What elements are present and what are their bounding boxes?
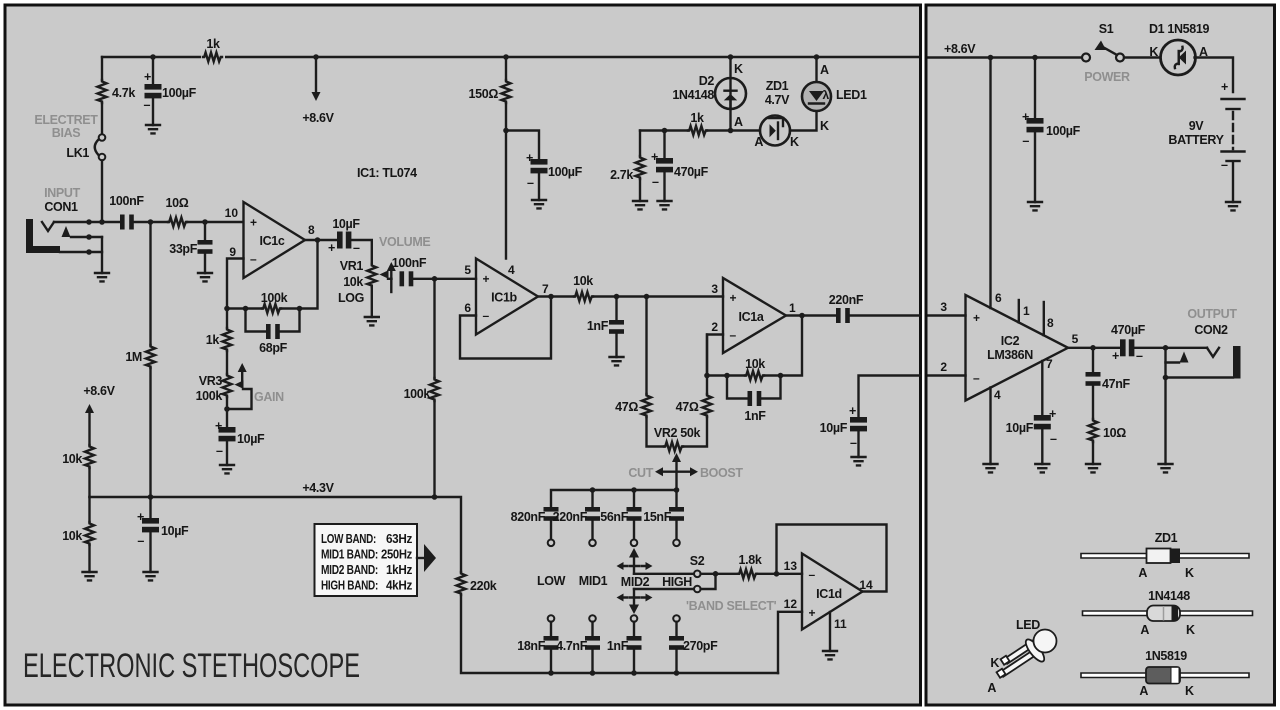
svg-text:2.7k: 2.7k <box>610 168 633 182</box>
wire: IC1d pin11 ground stub <box>829 612 831 651</box>
wire: IC1c pin9 feedback to node <box>227 259 244 309</box>
node: junction 100uF decouple <box>503 128 509 134</box>
svg-text:K: K <box>1186 623 1195 637</box>
svg-text:HIGH: HIGH <box>662 575 692 589</box>
svg-text:MID2 BAND:: MID2 BAND: <box>321 563 378 577</box>
svg-text:IC1c: IC1c <box>259 234 284 248</box>
svg-text:3: 3 <box>940 300 947 314</box>
svg-text:47nF: 47nF <box>1102 377 1130 391</box>
wire: IC1a pin2 to feedback <box>707 335 723 376</box>
op-amp IC1c <box>244 202 306 278</box>
svg-text:LOG: LOG <box>338 291 364 305</box>
resistor R 47R (right, tone) <box>706 335 708 395</box>
svg-text:100k: 100k <box>261 291 288 305</box>
svg-text:18nF: 18nF <box>517 639 545 653</box>
svg-text:10µF: 10µF <box>332 217 360 231</box>
svg-text:15nF: 15nF <box>643 510 671 524</box>
selector dashed arrows (upper) <box>624 565 645 567</box>
svg-text:2: 2 <box>711 320 718 334</box>
svg-text:1N5819: 1N5819 <box>1145 649 1187 663</box>
ground (CON1 sleeve) <box>95 273 109 281</box>
capacitor C 10uF (IC2 pin2) <box>850 417 867 431</box>
capacitor C 1nF (IC1a feedback) <box>727 376 781 399</box>
svg-text:HIGH BAND:: HIGH BAND: <box>321 579 378 593</box>
link LK1 ELECTRET BIAS <box>101 103 103 134</box>
node: rail junction at 150R <box>503 54 509 60</box>
svg-text:K: K <box>790 135 799 149</box>
switch S2 contact lower <box>634 588 694 590</box>
svg-text:1.8k: 1.8k <box>739 553 762 567</box>
svg-text:10Ω: 10Ω <box>1103 426 1126 440</box>
node: rail junction at 100uF <box>150 54 156 60</box>
svg-text:–: – <box>973 371 980 385</box>
svg-text:+: + <box>215 419 222 433</box>
terminal (15nF) <box>673 540 680 547</box>
svg-text:LK1: LK1 <box>66 146 89 160</box>
capacitor C 18nF (LOW bottom) <box>550 622 552 636</box>
pin 1 stub <box>1018 300 1020 322</box>
capacitor C 4.7nF (MID1 bottom) <box>591 622 593 636</box>
capacitor C 47nF (zobel) <box>1092 348 1094 372</box>
svg-text:–: – <box>483 309 490 323</box>
ground (VR1) <box>365 317 379 325</box>
svg-text:+: + <box>250 216 257 230</box>
ground (IC2 pin4) <box>984 464 998 472</box>
svg-text:IC1d: IC1d <box>816 587 842 601</box>
svg-text:9V: 9V <box>1189 119 1205 133</box>
zener diode ZD1 4.7V <box>760 116 790 146</box>
capacitor C 15nF (HIGH top) <box>675 490 677 507</box>
svg-text:CON2: CON2 <box>1194 323 1228 337</box>
feedback resistor R 10k (IC1a) <box>707 374 745 376</box>
capacitor C 33pF <box>204 222 206 273</box>
node: junction 1M branch <box>148 219 154 225</box>
svg-text:250Hz: 250Hz <box>381 548 412 562</box>
resistor R 10R (zobel) <box>1089 419 1098 442</box>
svg-text:1N4148: 1N4148 <box>1148 589 1190 603</box>
svg-text:10Ω: 10Ω <box>166 196 189 210</box>
svg-text:+: + <box>144 70 151 84</box>
svg-text:10µF: 10µF <box>820 421 848 435</box>
switch S2 contact upper <box>634 573 694 575</box>
wire: 220nF to IC2 pin3 (crosses panel gap) <box>850 314 920 316</box>
svg-text:470µF: 470µF <box>674 165 709 179</box>
potentiometer VR3 100k GAIN <box>226 351 228 374</box>
svg-text:1nF: 1nF <box>607 639 629 653</box>
svg-text:+: + <box>651 150 658 164</box>
svg-text:VOLUME: VOLUME <box>379 235 430 249</box>
resistor R 10k (divider top) <box>85 445 94 468</box>
svg-text:13: 13 <box>784 559 798 573</box>
terminal (220nF) <box>589 540 596 547</box>
capacitor C 220nF (output coupling) <box>836 308 850 323</box>
svg-text:CUT: CUT <box>628 466 653 480</box>
svg-text:8: 8 <box>308 223 315 237</box>
svg-text:MID1 BAND:: MID1 BAND: <box>321 548 378 562</box>
svg-text:GAIN: GAIN <box>254 390 284 404</box>
svg-text:63Hz: 63Hz <box>386 532 412 546</box>
resistor R 1k (LED current) <box>688 126 707 135</box>
svg-text:IC1: TL074: IC1: TL074 <box>357 166 417 180</box>
svg-text:470µF: 470µF <box>1111 323 1146 337</box>
capacitor C 470uF (output coupling) <box>1120 339 1134 356</box>
resistor R 10R (input) <box>168 218 187 227</box>
node: rail junction at D2 <box>728 54 734 60</box>
svg-text:LM386N: LM386N <box>987 348 1033 362</box>
svg-text:220nF: 220nF <box>553 510 588 524</box>
ground (100uF decouple) <box>532 200 546 208</box>
ground (10uF IC2 pin2) <box>852 457 866 465</box>
terminal (18nF) <box>548 615 555 622</box>
capacitor C 100nF (input coupling) <box>120 215 134 230</box>
capacitor C 68pF (parallel feedback) <box>246 309 300 332</box>
svg-text:ZD1: ZD1 <box>1155 531 1178 545</box>
node: rail junction at LED1 <box>814 54 820 60</box>
svg-text:4kHz: 4kHz <box>386 579 412 593</box>
capacitor C 10uF (gain set) <box>219 427 236 441</box>
pin 7 stub to 10uF <box>1041 361 1043 415</box>
ground (10uF half-rail) <box>144 572 158 580</box>
terminal (4.7nF) <box>589 615 596 622</box>
right schematic panel <box>926 5 1275 705</box>
op-amp IC1d <box>802 554 863 630</box>
svg-text:+8.6V: +8.6V <box>302 111 334 125</box>
ground (battery) <box>1226 202 1240 210</box>
svg-text:220k: 220k <box>470 579 497 593</box>
diode D1 1N5819 schottky <box>1161 40 1196 75</box>
left schematic panel <box>5 5 921 705</box>
svg-text:LED: LED <box>1016 618 1040 632</box>
svg-text:6: 6 <box>995 291 1002 305</box>
ground (2.7k) <box>633 201 647 209</box>
svg-text:100µF: 100µF <box>162 86 197 100</box>
svg-text:1k: 1k <box>206 37 220 51</box>
capacitor C 56nF (MID2 top) <box>633 490 635 507</box>
pin 8 stub <box>1043 302 1045 335</box>
svg-text:68pF: 68pF <box>259 341 287 355</box>
svg-text:100µF: 100µF <box>548 165 583 179</box>
svg-text:–: – <box>353 241 360 255</box>
wire: IC2 pin2 input <box>929 374 966 376</box>
svg-text:IC2: IC2 <box>1001 334 1020 348</box>
selector dashed arrows (lower) <box>624 596 645 598</box>
band table box <box>315 524 418 596</box>
svg-text:K: K <box>990 656 999 670</box>
capacitor C 10uF (IC2 bypass) <box>1034 415 1051 429</box>
wire: 100nF to IC1b pin5 <box>413 278 476 280</box>
ground (470uF) <box>658 201 672 209</box>
svg-text:K: K <box>1185 566 1194 580</box>
svg-text:MID2: MID2 <box>621 575 650 589</box>
wire: IC2 output pin5 <box>1068 347 1120 349</box>
op-amp IC2 LM386N <box>966 295 1069 401</box>
ground (100uF battery) <box>1028 202 1042 210</box>
capacitor C 10uF (half-rail decouple) <box>149 497 151 518</box>
diode D2 1N4148 <box>729 57 731 109</box>
svg-text:7: 7 <box>542 282 549 296</box>
wire: +4.3V rail <box>90 497 462 572</box>
svg-text:INPUT: INPUT <box>44 186 80 200</box>
capacitor C 100uF (battery decouple) <box>1034 58 1036 119</box>
svg-text:5: 5 <box>1072 332 1079 346</box>
wire: LK1 to input tip node <box>101 161 103 223</box>
svg-text:100k: 100k <box>196 389 223 403</box>
ground (10uF gain) <box>220 465 234 473</box>
svg-text:1nF: 1nF <box>744 409 766 423</box>
pin 4 stub to ground <box>989 388 991 465</box>
svg-text:4.7V: 4.7V <box>765 93 790 107</box>
wire: 220k to band filter common <box>461 595 778 673</box>
svg-text:+: + <box>483 272 490 286</box>
+8.6V supply arrow tap <box>315 57 317 92</box>
svg-text:6: 6 <box>464 301 471 315</box>
svg-text:ELECTRET: ELECTRET <box>34 113 98 127</box>
svg-text:5: 5 <box>464 263 471 277</box>
ground (divider) <box>83 572 97 580</box>
svg-text:VR1: VR1 <box>340 259 364 273</box>
ground (CON2) <box>1159 464 1173 472</box>
svg-text:–: – <box>850 436 857 450</box>
svg-text:47Ω: 47Ω <box>676 400 699 414</box>
svg-text:8: 8 <box>1047 316 1054 330</box>
resistor R 1k (top rail) <box>201 50 225 64</box>
resistor R 220k <box>457 572 466 595</box>
capacitor C 470uF (LED chain) <box>640 131 688 159</box>
svg-text:1k: 1k <box>690 111 704 125</box>
ground (zobel) <box>1086 464 1100 472</box>
svg-text:S2: S2 <box>690 554 705 568</box>
svg-text:LOW BAND:: LOW BAND: <box>321 532 376 546</box>
svg-text:ZD1: ZD1 <box>766 79 789 93</box>
svg-text:–: – <box>1050 432 1057 446</box>
svg-text:–: – <box>144 98 151 112</box>
svg-text:–: – <box>730 328 737 342</box>
capacitor C 1nF (MID2 bottom) <box>633 622 635 636</box>
VR2 wiper CUT/BOOST <box>672 453 681 462</box>
svg-text:10: 10 <box>225 206 239 220</box>
svg-text:BOOST: BOOST <box>700 466 743 480</box>
terminal (56nF) <box>631 540 638 547</box>
capacitor C 270pF (HIGH bottom) <box>675 622 677 636</box>
svg-text:220nF: 220nF <box>829 293 864 307</box>
wire: 10uF to VR1 top <box>351 240 371 264</box>
svg-text:VR3: VR3 <box>199 374 223 388</box>
svg-text:BIAS: BIAS <box>52 126 80 140</box>
svg-text:+: + <box>1022 110 1029 124</box>
wire: D1 to battery <box>1195 58 1234 93</box>
svg-text:+: + <box>973 311 980 325</box>
svg-text:–: – <box>652 175 659 189</box>
svg-text:λ: λ <box>823 88 830 102</box>
capacitor C 220nF (MID1 top) <box>591 490 593 507</box>
wire: IC1c output pin8 <box>305 239 337 241</box>
svg-text:A: A <box>820 63 829 77</box>
svg-text:IC1a: IC1a <box>738 310 764 324</box>
node: junction 100k bias divider <box>432 276 438 282</box>
node: junction 47R left <box>644 294 650 300</box>
svg-text:A: A <box>754 135 763 149</box>
op-amp IC1a <box>723 278 786 353</box>
svg-text:10µF: 10µF <box>237 432 265 446</box>
svg-text:VR2 50k: VR2 50k <box>654 426 701 440</box>
svg-text:+: + <box>526 151 533 165</box>
svg-text:1M: 1M <box>125 350 142 364</box>
wire: 470uF to CON2 <box>1135 347 1208 349</box>
capacitor C 1nF (rolloff) <box>615 297 617 358</box>
resistor R 47R (left, tone) <box>645 297 647 395</box>
svg-text:10µF: 10µF <box>161 524 189 538</box>
svg-text:+: + <box>730 291 737 305</box>
svg-text:LOW: LOW <box>537 574 566 588</box>
wire: IC1d feedback loop <box>777 525 887 592</box>
terminal (270pF) <box>673 615 680 622</box>
svg-text:4: 4 <box>994 388 1001 402</box>
wire: +8.6V rail (right panel) <box>929 56 1083 58</box>
resistor R 1.8k (S2 to IC1d) <box>738 569 757 578</box>
node: rail junction at +8.6V arrow <box>313 54 319 60</box>
capacitor C 100uF (decouple) <box>506 131 539 160</box>
LED LED1 <box>815 57 817 83</box>
resistor R 1M <box>149 222 151 345</box>
node: junction 1nF <box>614 294 620 300</box>
wire: IC2 pin2 return line <box>859 376 920 418</box>
svg-text:POWER: POWER <box>1084 70 1130 84</box>
junction dots on band common rail <box>548 670 554 676</box>
op-amp IC1b <box>476 259 538 335</box>
capacitor C 10uF (IC1c out coupling) <box>337 232 351 249</box>
svg-text:2: 2 <box>940 360 947 374</box>
svg-text:–: – <box>216 444 223 458</box>
svg-text:–: – <box>1221 158 1228 172</box>
svg-text:33pF: 33pF <box>169 242 197 256</box>
svg-text:A: A <box>987 681 996 695</box>
svg-text:11: 11 <box>834 617 847 631</box>
svg-text:4.7nF: 4.7nF <box>556 639 588 653</box>
svg-text:A: A <box>1138 566 1147 580</box>
svg-text:10k: 10k <box>745 357 765 371</box>
wire: 10k to IC1a pin3 <box>593 295 723 297</box>
band table arrow <box>417 557 424 559</box>
svg-text:+: + <box>1049 407 1056 421</box>
svg-text:1k: 1k <box>206 333 220 347</box>
svg-text:150Ω: 150Ω <box>469 87 499 101</box>
svg-text:A: A <box>1139 684 1148 698</box>
svg-text:+: + <box>328 241 335 255</box>
resistor R 150R (supply decouple) <box>505 57 507 80</box>
resistor R 10k (divider bottom) <box>88 497 90 522</box>
ground (IC1d pin11) <box>823 651 837 659</box>
svg-text:–: – <box>250 252 257 266</box>
capacitor C 820nF (LOW top) <box>544 507 559 521</box>
resistor R 10k (to IC1a) <box>574 292 593 301</box>
svg-text:4: 4 <box>508 263 515 277</box>
svg-text:'BAND SELECT': 'BAND SELECT' <box>686 599 777 613</box>
svg-text:MID1: MID1 <box>579 574 608 588</box>
capacitor C 100nF (VR1 wiper coupling) <box>400 271 414 286</box>
svg-text:100nF: 100nF <box>109 194 144 208</box>
wire: 10R to IC1c pin10 <box>187 221 243 223</box>
svg-text:270pF: 270pF <box>683 639 718 653</box>
svg-text:10µF: 10µF <box>1006 421 1034 435</box>
svg-text:820nF: 820nF <box>511 510 546 524</box>
svg-text:–: – <box>1022 134 1029 148</box>
ground (1nF) <box>610 357 624 365</box>
svg-text:K: K <box>1149 45 1158 59</box>
wire: IC1b output pin7 <box>538 295 574 297</box>
svg-text:+: + <box>809 606 816 620</box>
wire: IC1b pin6 unity feedback loop <box>460 297 551 359</box>
ground (10uF IC2) <box>1035 464 1049 472</box>
wire: VR2 wiper to band cap rail <box>551 490 677 507</box>
svg-text:14: 14 <box>859 578 873 592</box>
svg-text:4.7k: 4.7k <box>112 86 135 100</box>
resistor R 4.7k (electret bias) <box>101 57 103 80</box>
selector arrow MID2 up <box>633 556 635 574</box>
svg-text:OUTPUT: OUTPUT <box>1187 307 1237 321</box>
wire: IC1a output pin1 <box>786 314 836 316</box>
svg-text:–: – <box>1136 349 1143 363</box>
ground (bias filter cap) <box>146 125 160 133</box>
svg-text:S1: S1 <box>1099 22 1114 36</box>
svg-text:56nF: 56nF <box>600 510 628 524</box>
svg-text:3: 3 <box>711 282 718 296</box>
svg-text:1: 1 <box>1023 304 1030 318</box>
svg-text:–: – <box>527 176 534 190</box>
capacitor C 100uF (bias filter) <box>152 57 154 125</box>
resistor R 2.7k (LED chain) <box>639 131 641 157</box>
switch S1 POWER <box>1082 54 1090 62</box>
svg-text:+8.6V: +8.6V <box>944 42 976 56</box>
svg-text:9: 9 <box>229 245 236 259</box>
svg-text:1nF: 1nF <box>587 319 609 333</box>
terminal (1nF band) <box>631 615 638 622</box>
svg-text:1: 1 <box>789 301 796 315</box>
svg-text:CON1: CON1 <box>44 200 78 214</box>
wire: ZD1 to LED1 <box>790 111 817 131</box>
svg-text:10k: 10k <box>62 529 82 543</box>
wire: IC1d pin12 to band common <box>778 612 802 673</box>
svg-text:100nF: 100nF <box>392 256 427 270</box>
svg-text:+: + <box>1112 349 1119 363</box>
svg-text:12: 12 <box>784 597 798 611</box>
ground (33pF) <box>198 273 212 281</box>
svg-text:10k: 10k <box>573 274 593 288</box>
svg-text:K: K <box>820 119 829 133</box>
svg-text:100µF: 100µF <box>1046 124 1081 138</box>
wire: +8.6V top rail (left panel) <box>102 56 918 58</box>
svg-text:1N4148: 1N4148 <box>672 88 714 102</box>
svg-text:+: + <box>1221 80 1228 94</box>
svg-text:100k: 100k <box>404 387 431 401</box>
svg-text:1kHz: 1kHz <box>386 563 412 577</box>
wire: 100nF to 10R <box>134 221 168 223</box>
svg-text:+8.6V: +8.6V <box>83 384 115 398</box>
svg-text:+4.3V: +4.3V <box>302 481 334 495</box>
resistor R 1k (gain chain) <box>224 306 230 312</box>
svg-text:K: K <box>734 62 743 76</box>
selector arrow MID2 down <box>633 589 635 606</box>
svg-text:LED1: LED1 <box>836 88 867 102</box>
wire: IC2 pin3 input <box>929 314 966 316</box>
svg-text:+: + <box>137 510 144 524</box>
svg-text:ELECTRONIC STETHOSCOPE: ELECTRONIC STETHOSCOPE <box>23 647 360 685</box>
wire: 150R to IC1b pin4 <box>505 103 507 259</box>
svg-text:A: A <box>1140 623 1149 637</box>
feedback network IC1c : resistor R 100k <box>227 307 262 309</box>
svg-text:D2: D2 <box>699 74 715 88</box>
potentiometer VR2 50k tone <box>647 417 665 447</box>
svg-text:IC1b: IC1b <box>491 291 517 305</box>
